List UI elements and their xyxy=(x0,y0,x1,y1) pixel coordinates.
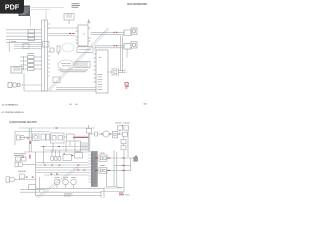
CN901 label smudge xyxy=(58,70,88,73)
wire second bus xyxy=(15,131,50,133)
stamp ellipse xyxy=(58,60,74,70)
stamp text smudge xyxy=(61,63,71,66)
page background xyxy=(0,0,149,198)
capacitor C232 xyxy=(58,150,61,160)
filter block FL901 label smudge xyxy=(28,53,35,54)
wire row upper a xyxy=(40,146,89,148)
filter block FL901 xyxy=(28,56,35,71)
diagonal marking 2 xyxy=(38,167,80,199)
red bead IC206 r xyxy=(108,169,111,171)
cap C202 xyxy=(46,134,50,140)
IC205 label smudge xyxy=(100,153,105,154)
red bead crystal xyxy=(135,155,137,157)
red bead wire a xyxy=(122,157,125,159)
transistor Q210 xyxy=(54,179,60,185)
red bead J203 a xyxy=(26,176,28,178)
IC901 regulator xyxy=(76,25,91,46)
wire top rail xyxy=(29,7,64,9)
red bead C221 xyxy=(72,155,74,157)
diagonal marking xyxy=(36,166,78,198)
block IC203 xyxy=(123,132,128,136)
svg-text:PDF: PDF xyxy=(5,3,20,12)
crystal X203 xyxy=(87,125,92,133)
svg-text:4-6. SCHEMATICS: 4-6. SCHEMATICS xyxy=(2,103,19,106)
red beads row2 xyxy=(78,169,86,171)
red tick on top bus xyxy=(56,127,58,129)
wire group AC in xyxy=(6,30,42,43)
wire vertical pair center xyxy=(88,133,90,152)
cap C215 xyxy=(20,174,25,179)
wire IC206 right xyxy=(110,169,130,171)
resistor R240 xyxy=(95,132,98,136)
wire bus to IC901 xyxy=(48,28,76,36)
red bead left Q201 xyxy=(101,133,103,135)
capacitor C230 xyxy=(51,150,54,160)
wire left drop xyxy=(35,152,37,196)
jack J101 L xyxy=(124,28,137,36)
capacitor C907 xyxy=(57,46,60,55)
red tick cluster xyxy=(22,156,24,158)
wire loop vertical xyxy=(130,158,132,170)
wire vertical right xyxy=(127,131,129,158)
capacitor C905 xyxy=(23,44,29,49)
red segment left xyxy=(29,141,31,144)
label smudge AC xyxy=(11,41,16,42)
FIGURE 2 : bottom schematic xyxy=(6,123,138,199)
wire group mid xyxy=(14,45,42,49)
wire drop row b xyxy=(65,141,67,152)
svg-text:4-7. PRINTED WIRING B.: 4-7. PRINTED WIRING B. xyxy=(2,112,25,114)
wire bottom bus xyxy=(24,90,96,92)
ferrite bead marks L/R xyxy=(114,32,118,46)
transistor labels smudge xyxy=(55,176,77,179)
transistor legs xyxy=(57,185,74,189)
page number marks xyxy=(70,103,147,105)
bottom label smudge 2 xyxy=(64,196,71,197)
capacitor C231 xyxy=(54,150,57,160)
wire vertical pair right xyxy=(121,36,127,73)
IC204 block xyxy=(75,141,88,152)
IC205 block xyxy=(99,155,107,161)
wire row to right xyxy=(20,136,88,137)
label smudge mic xyxy=(18,171,26,172)
cap C210 xyxy=(16,157,21,161)
red bead IC205 r xyxy=(108,157,111,159)
red note text xyxy=(119,193,124,195)
relay RY901 xyxy=(11,67,22,74)
filter FL201 xyxy=(112,131,117,137)
IC bus strip left xyxy=(42,20,48,91)
red beads row3 xyxy=(51,173,58,175)
fusible resistor marks xyxy=(69,33,74,35)
box bottom left xyxy=(29,185,36,190)
wire row upper b xyxy=(44,149,89,151)
wire left frame xyxy=(14,132,16,146)
block IC207 xyxy=(121,139,126,143)
transistor Q201 xyxy=(103,131,109,137)
wire left drop xyxy=(23,73,25,91)
rounded block B901 xyxy=(77,47,93,53)
wire IC205 right xyxy=(110,157,130,159)
label smudge left cluster xyxy=(14,153,26,156)
red bead mid xyxy=(63,153,65,155)
photo detector PH201 xyxy=(33,134,40,141)
arrow +B marker xyxy=(87,19,90,23)
red bead wire c xyxy=(122,169,125,171)
IC206 block xyxy=(99,168,107,174)
diagonal marking 2 xyxy=(49,29,109,91)
diagonal marking xyxy=(48,28,108,90)
wire mid bus xyxy=(24,151,91,153)
svg-text:HCD-GRX9900/XB6: HCD-GRX9900/XB6 xyxy=(127,3,148,6)
red bead IC205 l xyxy=(95,157,98,159)
red tick crystals xyxy=(122,124,123,126)
svg-text:(1) MAIN BOARD SECTION: (1) MAIN BOARD SECTION xyxy=(9,121,37,124)
wire rows center xyxy=(36,163,89,176)
wire vertical pair left xyxy=(29,128,31,152)
wire IC901 to jacks xyxy=(91,32,125,50)
block IC208 xyxy=(121,146,126,150)
wire bottom left rows xyxy=(20,177,104,195)
jack J203 xyxy=(6,177,36,183)
red beads row1 xyxy=(44,164,79,166)
red bead right FL201 xyxy=(118,133,120,135)
transistor Q211 xyxy=(63,179,69,185)
cap C201 xyxy=(41,134,45,140)
red bead right Q201 xyxy=(109,133,111,135)
strip pin stubs left xyxy=(89,155,92,182)
wire mid right xyxy=(114,164,131,166)
block IC202 xyxy=(67,134,75,141)
red bead J203 b xyxy=(32,176,34,178)
wire vertical drop left xyxy=(43,147,45,165)
IC102 pin label smudge xyxy=(98,57,103,90)
red bead row upper a1 xyxy=(43,146,45,148)
wire drop row a xyxy=(52,143,54,152)
filter X101 xyxy=(108,69,126,75)
wire top bus xyxy=(19,127,96,129)
jack J102 R xyxy=(124,42,137,49)
wire cluster links xyxy=(90,130,124,146)
wire corner b xyxy=(117,186,124,188)
wire corner d xyxy=(104,188,122,198)
stamp block top left xyxy=(19,6,31,17)
wire corner c xyxy=(101,192,124,199)
bus inner line xyxy=(44,20,46,91)
red bead row upper a2 xyxy=(58,146,60,148)
transformer T901 xyxy=(28,30,35,41)
cap C211 xyxy=(22,157,27,161)
PDF badge xyxy=(0,0,24,14)
jack J901 xyxy=(8,83,20,88)
FIGURE 1 : top schematic xyxy=(6,3,137,93)
red note legend xyxy=(125,83,129,89)
wire top drop xyxy=(45,10,47,21)
wire vertical pair right xyxy=(114,150,124,192)
IC array strip xyxy=(91,152,97,187)
gray note text xyxy=(125,193,130,196)
red segment left lower xyxy=(29,155,31,159)
IC102 main xyxy=(94,50,109,93)
red bead wire b xyxy=(122,164,125,166)
jack J202 xyxy=(15,162,36,167)
wire pair to IC right xyxy=(56,88,96,90)
crystal X202 xyxy=(124,126,129,130)
transistor Q212 xyxy=(71,179,77,185)
cap block C220 xyxy=(63,155,72,161)
cap block C221 xyxy=(75,153,83,159)
wire drop row c xyxy=(69,141,71,147)
wire bus left of FL901 xyxy=(20,56,42,70)
title block text smudge xyxy=(72,3,81,8)
bus pin stubs right xyxy=(48,24,51,76)
crystal X201 xyxy=(118,126,123,130)
wire top rail 2 xyxy=(29,9,50,11)
block IC201 xyxy=(51,133,65,143)
connector strip CN901 xyxy=(75,62,90,68)
resistor R905 xyxy=(50,48,54,52)
bottom label smudge xyxy=(64,194,73,195)
red bead IC206 l xyxy=(95,169,98,171)
IC206 label smudge xyxy=(100,165,105,166)
wire left drop AC xyxy=(8,41,10,52)
arrow signal xyxy=(27,136,31,139)
switch S901 on bus xyxy=(43,42,50,48)
jack J201 xyxy=(17,135,25,140)
signal wire red xyxy=(73,137,89,139)
crystal label smudge xyxy=(115,123,130,124)
wire jack to bus xyxy=(20,84,42,86)
fuse F901 xyxy=(64,14,74,25)
diode D905 xyxy=(53,77,60,83)
wire stamp drop xyxy=(30,16,32,27)
crystal Y201 xyxy=(131,157,138,161)
stamp ellipse upper xyxy=(62,43,74,52)
wire U corner a xyxy=(107,172,118,187)
